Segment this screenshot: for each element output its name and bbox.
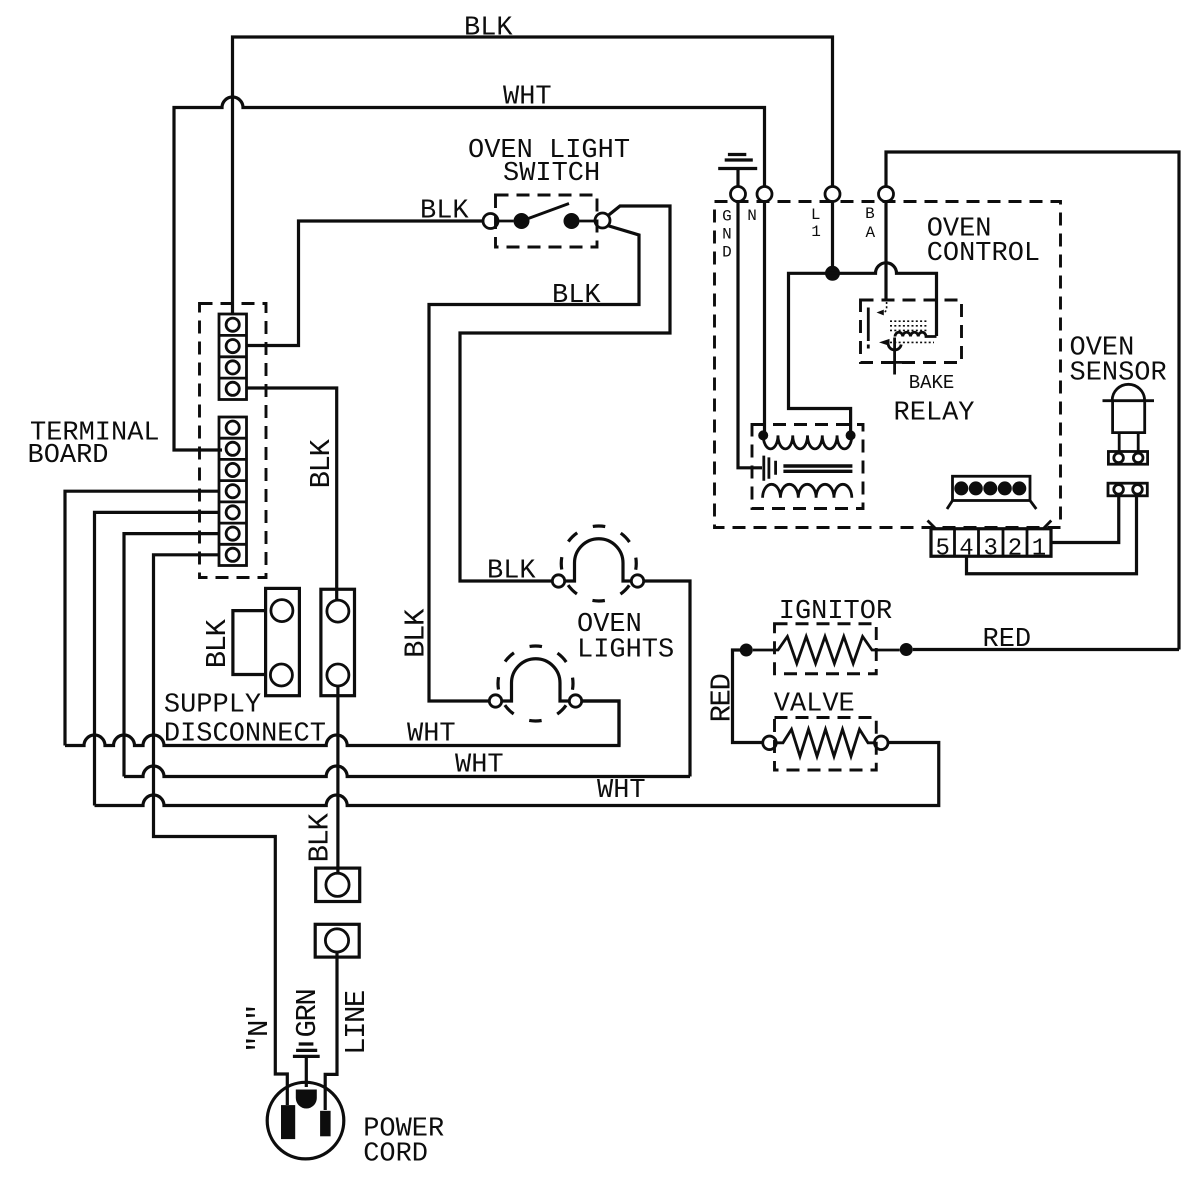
svg-text:BLK: BLK: [305, 439, 338, 489]
wire WHT3 bus: [95, 743, 939, 806]
svg-text:BLK: BLK: [400, 608, 433, 658]
wire LINE terminal to power cord: [325, 952, 337, 1110]
svg-text:RELAY: RELAY: [894, 399, 975, 429]
svg-text:LINE: LINE: [340, 991, 373, 1055]
plug line prong: [320, 1111, 331, 1137]
svg-text:WHT: WHT: [407, 720, 456, 750]
relay arrow 2: [890, 341, 934, 343]
relay coil: [895, 332, 937, 336]
relay plunger hook: [888, 345, 901, 350]
wire ignitor left down to valve (RED): [733, 650, 763, 743]
svg-text:SENSOR: SENSOR: [1070, 358, 1167, 388]
svg-text:DISCONNECT: DISCONNECT: [164, 720, 326, 750]
svg-text:"N": "N": [243, 1005, 276, 1053]
wire BA into bake relay: [884, 202, 887, 302]
svg-text:1: 1: [1032, 536, 1046, 563]
wire lower terminal 6 to WHT2: [124, 534, 219, 777]
wire pin 4 to oven sensor: [967, 496, 1137, 574]
connector P1 (5 contacts): [947, 476, 1036, 509]
svg-text:BOARD: BOARD: [28, 441, 109, 471]
wire switch to top oven light (BLK): [460, 206, 670, 581]
transformer core lines: [783, 466, 852, 471]
wire BA up and around right side to ignitor (RED loop): [886, 152, 1179, 650]
wire switch to bottom oven light (BLK): [429, 226, 639, 701]
svg-text:2: 2: [1008, 536, 1022, 563]
oven sensor harness block: [1108, 483, 1147, 496]
svg-text:GRN: GRN: [291, 990, 324, 1038]
wire bottom lamp right to WHT1: [582, 701, 619, 746]
svg-text:BLK: BLK: [464, 14, 513, 44]
line terminal block upper: [316, 868, 360, 901]
svg-text:RED: RED: [983, 625, 1032, 655]
ignitor node dot left: [740, 644, 753, 657]
wire WHT1 bus: [65, 701, 619, 746]
svg-text:WHT: WHT: [455, 751, 504, 781]
wire junction to bake relay coil, hops over BA wire: [833, 263, 937, 336]
terminal N on oven control: [757, 187, 772, 202]
transformer T1 (dashed box): [752, 425, 863, 509]
supply disconnect right half: [321, 589, 355, 695]
svg-text:3: 3: [984, 536, 998, 563]
terminal GND on oven control: [731, 187, 746, 202]
wire BLK jumper on supply disconnect: [233, 611, 266, 675]
ignitor resistor element: [753, 637, 900, 664]
wire BLK from power line up over to oven control L1: [233, 37, 833, 314]
ground symbol (chassis) above oven control GND: [718, 155, 757, 188]
svg-text:BAKE: BAKE: [909, 372, 955, 394]
svg-text:WHT: WHT: [597, 776, 646, 806]
svg-text:BLK: BLK: [201, 618, 234, 668]
wire BLK terminal board to switch: [247, 221, 484, 346]
relay arrow from BA: [882, 302, 887, 313]
terminal board upper block: [219, 314, 247, 400]
transformer primary coil: [763, 435, 852, 449]
wire WHT2 bus: [124, 766, 690, 776]
svg-text:LIGHTS: LIGHTS: [577, 636, 674, 666]
terminal board lower block: [219, 417, 247, 566]
svg-text:BLK: BLK: [304, 813, 337, 863]
svg-text:D: D: [722, 244, 732, 262]
valve terminal circle right: [875, 736, 889, 750]
wire ignitor right to RED loop: [913, 648, 1179, 651]
wire GND to transformer core ground: [738, 202, 762, 468]
valve L1 (dashed box): [775, 718, 877, 771]
wire lower terminal 7 to power cord neutral: [154, 555, 288, 1105]
transformer secondary coil: [763, 484, 852, 498]
wire N to transformer primary: [763, 202, 766, 434]
terminal BA on oven control: [879, 187, 894, 202]
svg-text:L: L: [811, 206, 821, 224]
relay core (dotted): [890, 321, 928, 330]
svg-text:CORD: CORD: [363, 1140, 428, 1170]
svg-text:SWITCH: SWITCH: [503, 159, 600, 189]
transformer primary node dots: [758, 430, 768, 440]
oven sensor plug block: [1108, 452, 1147, 465]
wire lower terminal 4 to WHT1: [65, 491, 219, 745]
valve resistor element: [776, 729, 874, 756]
terminal L1 on oven control: [825, 187, 840, 202]
terminal board TB1 (dashed box): [200, 304, 267, 578]
svg-text:5: 5: [936, 536, 950, 563]
supply disconnect left half: [266, 588, 300, 695]
ignitor E1 (dashed box): [775, 624, 877, 674]
svg-text:WHT: WHT: [503, 83, 552, 113]
valve terminal circle left: [763, 736, 777, 750]
relay plunger stem: [885, 338, 904, 375]
wire top lamp right to WHT2: [643, 581, 690, 777]
wire pin 1 to oven sensor: [1051, 496, 1119, 543]
oven light switch S1: [483, 195, 610, 247]
transformer core ground bars: [764, 456, 776, 481]
svg-text:N: N: [722, 226, 732, 244]
svg-text:RED: RED: [706, 675, 739, 723]
ground symbol GRN to power cord: [293, 1044, 320, 1087]
junction node L1: [825, 266, 840, 281]
oven control box U1 (dashed): [715, 202, 1061, 528]
line terminal block lower: [315, 924, 359, 957]
svg-text:A: A: [865, 224, 875, 242]
wire junction to transformer primary right: [789, 273, 851, 433]
svg-text:VALVE: VALVE: [774, 690, 855, 720]
relay armature contact bar: [867, 308, 870, 349]
wire lower terminal 5 to WHT3: [95, 512, 220, 805]
ignitor node dot right: [900, 643, 913, 656]
wire terminal 4 (upper) to supply disconnect BLK: [247, 388, 337, 600]
power cord plug P2: [267, 1082, 344, 1159]
oven light DS2 (bottom): [489, 646, 581, 721]
svg-text:BLK: BLK: [487, 557, 536, 587]
wire BLK supply disconnect to line terminal: [336, 686, 339, 873]
bake relay K1 (dashed box): [861, 300, 962, 363]
svg-text:BLK: BLK: [420, 197, 469, 227]
svg-text:N: N: [747, 207, 757, 225]
oven light DS1 (top): [552, 526, 643, 601]
plug neutral prong: [281, 1105, 295, 1139]
svg-text:CONTROL: CONTROL: [927, 239, 1040, 269]
svg-text:B: B: [865, 205, 875, 223]
svg-text:G: G: [722, 208, 732, 226]
wire L1 down to junction: [831, 202, 834, 274]
svg-text:1: 1: [811, 223, 821, 241]
wire WHT neutral: terminal board to oven control N, hops over BLK vertical: [174, 97, 765, 450]
plug ground prong: [296, 1090, 317, 1109]
svg-text:SUPPLY: SUPPLY: [164, 691, 261, 721]
oven sensor RT1 bulb: [1103, 384, 1155, 451]
svg-text:BLK: BLK: [552, 281, 601, 311]
connector J1 pins 5 4 3 2 1: [928, 521, 1052, 557]
